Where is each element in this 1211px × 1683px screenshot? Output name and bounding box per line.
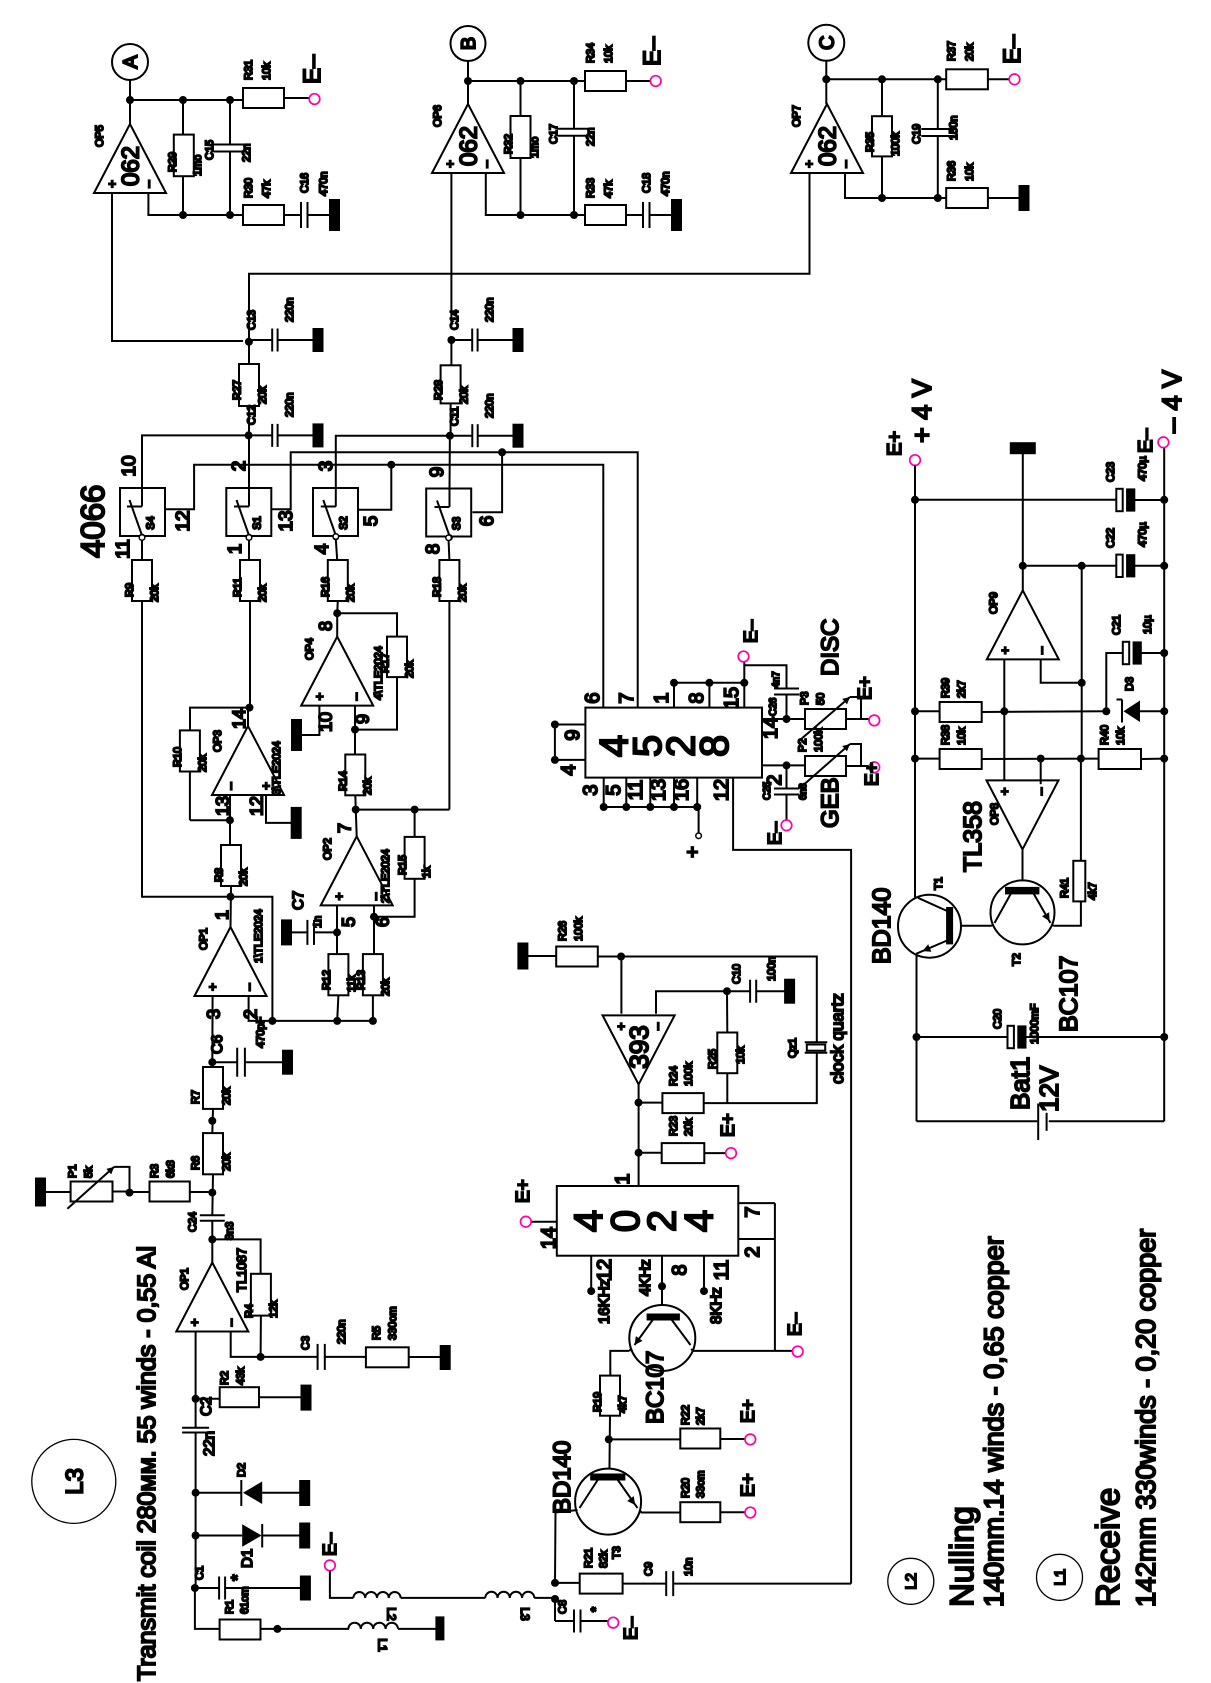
capacitor C14: [451, 339, 472, 341]
coil L1 symbol circle: [1037, 1554, 1083, 1600]
svg-text:E–: E–: [299, 54, 326, 84]
capacitor C20: [917, 1036, 1008, 1038]
wire OP2+: [336, 905, 338, 954]
node B: [451, 26, 486, 61]
svg-text:20k: 20k: [221, 1153, 233, 1171]
capacitor C16: [284, 214, 301, 216]
resistor R16: [328, 560, 348, 601]
svg-text:Bat1: Bat1: [1005, 1057, 1035, 1111]
svg-text:C7: C7: [290, 891, 307, 910]
svg-text:220n: 220n: [484, 394, 496, 418]
svg-text:R28: R28: [433, 380, 445, 400]
svg-text:OP7: OP7: [791, 105, 803, 127]
wire C13 to OP7+: [249, 173, 810, 342]
svg-text:E–: E–: [785, 1312, 806, 1336]
wire OP1- to rail: [249, 996, 373, 1021]
ground: [308, 214, 331, 216]
svg-text:R2: R2: [219, 1371, 231, 1385]
svg-text:BC107: BC107: [1055, 956, 1083, 1032]
resistor R1: [195, 1588, 220, 1629]
svg-text:16: 16: [671, 779, 693, 801]
wire to + test point: [697, 807, 698, 833]
wire feedback: [148, 193, 243, 215]
wire: [211, 1109, 214, 1133]
resistor R7: [211, 1062, 213, 1067]
wire OP8 out to T2 base: [1022, 849, 1024, 888]
capacitor C12: [249, 434, 272, 436]
svg-text:R7: R7: [190, 1090, 202, 1104]
svg-text:1: 1: [612, 1173, 634, 1184]
svg-text:–: –: [1033, 646, 1048, 654]
svg-text:C21: C21: [1111, 615, 1123, 635]
svg-text:82k: 82k: [598, 1550, 610, 1568]
svg-text:16KHz: 16KHz: [596, 1279, 613, 1324]
capacitor C2 22n: [182, 1427, 209, 1429]
capacitor C3: [261, 1356, 318, 1358]
node C11 junction: [446, 432, 454, 440]
svg-text:47k: 47k: [603, 180, 615, 198]
svg-text:R15: R15: [397, 855, 409, 875]
diode D2: [196, 1492, 242, 1494]
node C1: [191, 1584, 199, 1592]
svg-text:T2: T2: [1011, 953, 1023, 966]
svg-text:R33: R33: [585, 178, 597, 198]
wire OP1- to R4 node: [231, 1332, 261, 1357]
svg-text:–: –: [141, 180, 156, 188]
wire R15 to OP2-: [374, 879, 415, 917]
potentiometer P3: [787, 718, 806, 720]
svg-text:BD140: BD140: [868, 888, 896, 964]
pin 15: [743, 683, 745, 708]
svg-text:E+: E+: [718, 1113, 739, 1137]
transistor T2 BC107: [991, 880, 1055, 944]
svg-text:100n: 100n: [766, 957, 778, 981]
capacitor C22: [1116, 555, 1122, 577]
svg-text:*: *: [228, 1574, 247, 1581]
svg-text:TL358: TL358: [959, 801, 987, 872]
comparator 393: [620, 957, 622, 1014]
node 8 junction: [333, 609, 341, 617]
svg-text:1: 1: [212, 910, 232, 920]
svg-text:R6: R6: [190, 1156, 202, 1170]
svg-text:61om: 61om: [239, 1586, 251, 1614]
resistor R15: [414, 810, 416, 837]
capacitor C13: [249, 339, 272, 341]
svg-text:S1: S1: [251, 516, 263, 529]
pin1 node: [635, 1149, 643, 1157]
svg-text:8: 8: [693, 735, 737, 757]
pins 9 and 4 left side: [555, 724, 586, 726]
terminal E-: [309, 94, 320, 105]
svg-text:C19: C19: [911, 124, 923, 144]
left rail: [914, 466, 916, 898]
svg-text:13: 13: [276, 510, 297, 531]
svg-text:100k: 100k: [813, 728, 825, 752]
wire T3 right to R20: [640, 1510, 681, 1513]
svg-text:R36: R36: [946, 161, 958, 181]
svg-text:20k: 20k: [457, 584, 469, 602]
terminal E- -4V: [1158, 437, 1169, 448]
svg-text:11: 11: [711, 1260, 733, 1281]
svg-text:6: 6: [477, 516, 498, 527]
node C6: [208, 1058, 216, 1066]
svg-text:L2: L2: [384, 1607, 398, 1621]
wire R16 to node8: [336, 601, 339, 613]
ground: [245, 1061, 283, 1063]
op-amp OP4: [336, 613, 338, 636]
terminal E-: [650, 76, 661, 87]
svg-text:2k7: 2k7: [956, 680, 968, 698]
svg-text:E+: E+: [855, 676, 876, 700]
resistor R30: [243, 205, 284, 225]
svg-text:C23: C23: [1105, 462, 1117, 482]
svg-text:C16: C16: [299, 173, 311, 193]
wire output rail: [130, 99, 243, 101]
svg-text:OP8: OP8: [989, 803, 1001, 825]
svg-text:R14: R14: [338, 771, 350, 791]
wire S2 out to R16: [333, 534, 339, 540]
op-amp OP6: [432, 104, 504, 173]
wire node7 to R15/R18: [356, 809, 450, 811]
terminal E-: [781, 820, 792, 831]
svg-text:470µ: 470µ: [1137, 456, 1149, 481]
battery Bat1: [917, 1120, 1038, 1122]
resistor R14: [345, 755, 365, 796]
svg-text:BC107: BC107: [642, 1351, 669, 1424]
svg-text:8: 8: [686, 692, 708, 703]
switch S2: [313, 488, 358, 536]
terminal E-: [1009, 74, 1020, 85]
svg-text:12k: 12k: [268, 1300, 280, 1318]
393 output node: [638, 1084, 640, 1152]
resistor R35: [881, 79, 883, 116]
resistor R9: [132, 560, 152, 601]
svg-text:OP6: OP6: [432, 105, 444, 127]
svg-text:C18: C18: [641, 173, 653, 193]
node 1 junction: [230, 886, 233, 927]
svg-text:E–: E–: [320, 1532, 341, 1556]
resistor R25: [726, 991, 728, 1032]
svg-text:E–: E–: [639, 36, 666, 66]
resistor R4: [212, 1239, 260, 1273]
pin 1: [673, 683, 675, 708]
svg-text:R23: R23: [668, 1116, 680, 1136]
svg-text:1: 1: [225, 544, 246, 555]
svg-text:C26: C26: [768, 697, 779, 716]
pin 7 / pin 2 stubs: [738, 1202, 775, 1204]
transistor T4 BC107: [661, 1286, 663, 1314]
svg-text:43k: 43k: [235, 1367, 247, 1385]
svg-text:R39: R39: [940, 678, 952, 698]
svg-text:20k: 20k: [362, 777, 374, 795]
svg-text:Receive: Receive: [1089, 1488, 1126, 1607]
svg-text:2: 2: [742, 1246, 764, 1257]
svg-text:10k: 10k: [964, 163, 976, 181]
svg-text:R8: R8: [214, 868, 226, 882]
svg-text:220n: 220n: [284, 298, 296, 322]
coil L3 big circle: [32, 1439, 116, 1523]
svg-text:R40: R40: [1099, 725, 1111, 745]
wire OP3- node13: [229, 795, 231, 845]
terminal E+: [745, 1507, 756, 1518]
op-amp OP2: [321, 836, 393, 905]
pin 12: [733, 778, 851, 1584]
capacitor C6: [212, 1061, 237, 1063]
wire C12 to S1: [248, 435, 250, 488]
svg-text:C20: C20: [992, 1009, 1004, 1029]
svg-text:C15: C15: [204, 140, 216, 160]
resistor R39: [915, 710, 940, 712]
resistor R11: [240, 560, 260, 601]
svg-text:A: A: [120, 55, 142, 69]
svg-text:5k: 5k: [83, 1166, 95, 1178]
ground: [988, 197, 1019, 199]
wire output rail: [826, 78, 946, 80]
svg-text:E+: E+: [513, 1179, 534, 1203]
svg-text:R11: R11: [232, 578, 244, 597]
resistor R13: [363, 954, 383, 995]
svg-text:1k: 1k: [421, 866, 433, 878]
wire: [129, 80, 131, 124]
svg-text:L3: L3: [61, 1468, 88, 1495]
svg-text:C1: C1: [194, 1566, 206, 1580]
svg-text:5: 5: [361, 516, 382, 527]
transistor T1 BD140: [898, 895, 961, 958]
wire C12 to S4: [142, 435, 249, 488]
svg-text:C3: C3: [300, 1336, 312, 1350]
svg-text:E–: E–: [621, 1616, 642, 1640]
svg-text:4066: 4066: [74, 485, 111, 558]
svg-text:Transmit coil 280мм. 55 winds: Transmit coil 280мм. 55 winds - 0,55 Al: [133, 1246, 161, 1681]
capacitor C23: [1116, 489, 1122, 511]
svg-text:R41: R41: [1059, 878, 1071, 898]
ground: [278, 434, 314, 436]
inductor L1: [348, 1623, 360, 1629]
svg-text:9: 9: [562, 729, 584, 740]
bottom pins 3 5 11 13 16: [603, 778, 605, 807]
svg-text:OP1: OP1: [179, 1268, 191, 1290]
terminal E+: [745, 1434, 756, 1445]
wire R26 to quartz top: [598, 957, 817, 1043]
pin 14 E+: [531, 1221, 557, 1223]
ground: [478, 435, 514, 437]
ground: [259, 1396, 302, 1398]
op-amp OP1 TL1087: [176, 1263, 248, 1332]
svg-text:D1: D1: [239, 1549, 256, 1568]
capacitor C21: [1106, 653, 1122, 711]
svg-text:140mm.14 winds - 0,65 copper: 140mm.14 winds - 0,65 copper: [979, 1236, 1009, 1607]
svg-text:470pF: 470pF: [255, 1017, 267, 1048]
svg-text:R13: R13: [356, 970, 368, 990]
svg-text:9: 9: [427, 467, 448, 478]
svg-text:E+: E+: [738, 1473, 759, 1497]
svg-text:–: –: [1033, 787, 1048, 795]
svg-text:11: 11: [625, 780, 647, 801]
svg-text:+: +: [682, 846, 704, 858]
svg-text:6n8: 6n8: [798, 783, 809, 800]
svg-text:470µ: 470µ: [1137, 522, 1149, 547]
svg-text:R1: R1: [224, 1600, 236, 1614]
op-amp OP5: [94, 124, 166, 193]
resistor R8: [221, 845, 241, 886]
wire R18 to node7: [448, 601, 450, 810]
resistor R5: [325, 1356, 366, 1358]
svg-text:R32: R32: [503, 134, 515, 154]
wire output rail: [468, 80, 585, 82]
capacitor C1: [195, 1587, 219, 1589]
svg-text:20k: 20k: [964, 43, 976, 61]
resistor R2: [196, 1398, 220, 1400]
resistor R24: [639, 1102, 663, 1104]
svg-text:R9: R9: [124, 583, 136, 597]
svg-text:D3: D3: [1124, 677, 1136, 691]
ground above OP9: [1011, 443, 1035, 453]
capacitor C9: [623, 1583, 667, 1585]
op-amp OP1 (TLE2024): [195, 927, 267, 996]
terminal E-: [738, 651, 749, 662]
svg-text:E–: E–: [1135, 428, 1157, 453]
svg-text:+: +: [331, 893, 346, 901]
resistor R6: [203, 1133, 223, 1174]
svg-text:12: 12: [711, 779, 733, 801]
svg-text:22n: 22n: [241, 144, 253, 162]
svg-text:P2: P2: [797, 739, 809, 752]
svg-text:12: 12: [594, 1259, 616, 1281]
wire OP1+ to C6: [211, 996, 213, 1062]
svg-text:R19: R19: [592, 1392, 604, 1412]
wire + junction: [261, 1628, 350, 1630]
svg-text:470n: 470n: [660, 172, 672, 196]
diode D1: [196, 1535, 243, 1537]
wire: [467, 61, 469, 104]
svg-text:R34: R34: [585, 43, 597, 63]
svg-text:R31: R31: [243, 60, 255, 80]
svg-text:8: 8: [423, 544, 444, 555]
capacitor C25: [786, 765, 788, 788]
resistor R19: [600, 1376, 620, 1416]
svg-text:OP2: OP2: [322, 838, 334, 860]
IC 4024: [638, 1153, 640, 1186]
svg-text:GEB: GEB: [817, 777, 844, 828]
pin 11 8KHz: [703, 1256, 705, 1291]
wire: [401, 1597, 486, 1599]
wire OP9+ down: [1003, 659, 1005, 784]
svg-text:100k: 100k: [890, 132, 902, 156]
svg-text:P3: P3: [799, 692, 811, 705]
wire feedback: [845, 173, 946, 198]
capacitor C18: [626, 214, 643, 216]
svg-text:D2: D2: [236, 1463, 248, 1477]
wire C7 to OP2+: [314, 931, 337, 933]
svg-text:+: +: [443, 160, 458, 168]
resistor R26: [527, 955, 556, 957]
wire OP4- node9: [354, 706, 356, 755]
svg-text:C24: C24: [187, 1212, 199, 1232]
capacitor C26: [744, 665, 786, 688]
node C13 junction: [245, 338, 253, 346]
svg-text:20k: 20k: [459, 386, 471, 404]
pin 8: [708, 683, 710, 708]
svg-text:20k: 20k: [683, 1118, 695, 1136]
svg-text:C17: C17: [548, 124, 560, 144]
capacitor C24: [200, 1214, 225, 1216]
svg-text:C22: C22: [1105, 528, 1117, 548]
svg-text:E+: E+: [884, 431, 906, 456]
svg-text:4k7: 4k7: [617, 1395, 629, 1413]
svg-text:062: 062: [815, 126, 842, 166]
resistor R17: [337, 613, 397, 636]
svg-text:5: 5: [338, 917, 358, 927]
wire: [211, 1174, 214, 1215]
coil L2 symbol circle: [888, 1558, 934, 1604]
wire T4 emitter to R19: [629, 1348, 631, 1351]
wire S4 out to R9: [139, 535, 145, 541]
svg-text:220n: 220n: [284, 393, 296, 417]
wire OP1+ down: [195, 1332, 197, 1428]
resistor R21: [555, 1582, 580, 1584]
capacitor C11: [450, 435, 472, 437]
svg-text:R3: R3: [149, 1164, 161, 1178]
ground: [409, 1356, 441, 1358]
pin 2: [762, 764, 787, 766]
svg-text:C: C: [817, 36, 839, 50]
resistor R20: [680, 1502, 720, 1522]
wire T1 collector rail: [915, 896, 917, 898]
svg-text:T3: T3: [611, 1546, 623, 1559]
resistor R33: [585, 205, 626, 225]
svg-text:50: 50: [815, 693, 827, 705]
terminal E+: [869, 762, 880, 773]
pin 12 16KHz: [590, 1256, 592, 1291]
svg-text:100k: 100k: [573, 917, 585, 941]
svg-text:+: +: [997, 647, 1012, 655]
svg-text:R25: R25: [707, 1049, 719, 1069]
svg-text:L1: L1: [376, 1638, 390, 1652]
resistor R41: [1073, 861, 1085, 902]
svg-text:1: 1: [651, 692, 673, 703]
svg-text:–: –: [479, 160, 494, 168]
svg-text:4KHz: 4KHz: [637, 1259, 654, 1296]
svg-text:C12: C12: [246, 405, 258, 425]
resistor R28: [450, 340, 452, 365]
svg-text:7: 7: [334, 823, 354, 833]
capacitor C8: [554, 1599, 556, 1621]
ground: [278, 339, 314, 341]
svg-text:C11: C11: [449, 407, 461, 426]
feedback vertical to R41: [1081, 566, 1083, 759]
svg-text:S3: S3: [451, 517, 463, 530]
svg-text:4n7: 4n7: [771, 671, 782, 688]
resistor R23: [639, 1152, 662, 1154]
svg-text:10k: 10k: [956, 727, 968, 745]
wire OP2- to R13: [373, 905, 375, 954]
wire R13 to rail: [372, 995, 374, 1021]
svg-text:10k: 10k: [261, 62, 273, 80]
zener diode D3: [1121, 700, 1123, 723]
svg-text:–: –: [241, 983, 256, 991]
svg-text:14: 14: [760, 717, 782, 739]
node C2: [192, 1395, 200, 1403]
svg-text:R20: R20: [680, 1478, 692, 1498]
node C12 junction: [245, 431, 253, 439]
svg-text:11: 11: [113, 539, 134, 559]
svg-text:E–: E–: [741, 619, 762, 643]
svg-text:C25: C25: [762, 781, 773, 800]
svg-text:R17: R17: [380, 653, 392, 673]
svg-text:C10: C10: [731, 964, 743, 984]
svg-text:R4: R4: [244, 1304, 256, 1318]
node 7 junction: [355, 795, 356, 836]
